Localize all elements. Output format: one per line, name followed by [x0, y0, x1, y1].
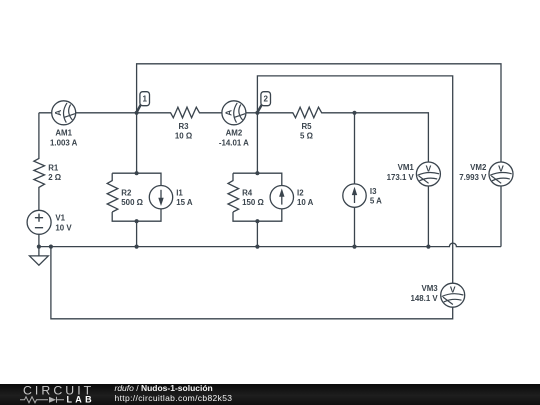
svg-text:R4: R4 — [242, 188, 253, 197]
svg-text:5 A: 5 A — [370, 197, 382, 206]
svg-text:VM3: VM3 — [421, 284, 438, 293]
svg-text:5 Ω: 5 Ω — [300, 131, 313, 140]
svg-text:A: A — [223, 110, 233, 116]
svg-text:R5: R5 — [301, 122, 312, 131]
wire main horizontal rail with AM1 R3 AM2 R5 — [39, 107, 429, 246]
voltage source V1 — [27, 210, 51, 234]
node 2 badge — [257, 92, 270, 113]
voltmeter VM3 — [441, 283, 465, 307]
junction R4 box bottom — [255, 219, 259, 223]
ammeter AM1 — [52, 101, 76, 125]
svg-text:10 V: 10 V — [55, 223, 72, 232]
ground symbol — [30, 247, 49, 266]
wire parallel box R4 I2 — [228, 173, 282, 246]
node 1 badge — [137, 92, 150, 113]
junction VM1 on bottom rail — [426, 245, 430, 249]
svg-text:150 Ω: 150 Ω — [242, 198, 264, 207]
junction R2 box bottom — [135, 219, 139, 223]
junction node 1 on main rail — [135, 111, 139, 115]
wire bottom ground rail with hop over VM3 wire — [39, 243, 501, 247]
svg-text:173.1 V: 173.1 V — [387, 173, 415, 182]
svg-text:V: V — [450, 285, 456, 295]
svg-text:148.1 V: 148.1 V — [410, 294, 438, 303]
wire node 2 column down to parallel box — [256, 113, 258, 173]
footer bar with CircuitLab logo and credits — [0, 384, 540, 405]
wire parallel box R2 I1 — [107, 173, 161, 246]
current source I1 arrow down — [149, 186, 172, 209]
wire second top net from node 2 to VM3 column — [257, 76, 452, 283]
wire top net from node 1 to VM2 column — [137, 64, 501, 247]
svg-text:LAB: LAB — [67, 395, 95, 405]
svg-text:R2: R2 — [121, 188, 132, 197]
svg-text:R1: R1 — [48, 164, 59, 173]
svg-text:R3: R3 — [178, 122, 189, 131]
junction R4 box top — [255, 171, 259, 175]
svg-text:500 Ω: 500 Ω — [121, 198, 143, 207]
svg-text:1.003 A: 1.003 A — [50, 139, 78, 148]
svg-text:I1: I1 — [176, 188, 183, 197]
voltmeter VM1 — [416, 162, 440, 186]
svg-text:A: A — [53, 110, 63, 116]
svg-text:I3: I3 — [370, 187, 377, 196]
svg-text:1: 1 — [142, 95, 147, 104]
junction R2 branch on bottom rail — [135, 245, 139, 249]
svg-text:10 A: 10 A — [297, 198, 314, 207]
junction node 2 on main rail — [255, 111, 259, 115]
svg-text:2 Ω: 2 Ω — [48, 173, 61, 182]
wire left branch with resistor R1 and source V1 — [34, 113, 45, 247]
wire node 1 column down to parallel box — [136, 113, 138, 173]
svg-text:AM2: AM2 — [226, 129, 243, 138]
svg-text:AM1: AM1 — [55, 129, 72, 138]
junction I3 top on main rail — [352, 111, 356, 115]
svg-text:V: V — [498, 163, 504, 173]
junction VM3 loop on bottom rail — [49, 245, 53, 249]
svg-text:V: V — [426, 163, 432, 173]
svg-text:7.993 V: 7.993 V — [459, 173, 487, 182]
junction R4 branch on bottom rail — [255, 245, 259, 249]
svg-text:V1: V1 — [55, 214, 65, 223]
svg-text:VM1: VM1 — [398, 163, 415, 172]
svg-text:-14.01 A: -14.01 A — [219, 139, 249, 148]
svg-text:VM2: VM2 — [470, 163, 487, 172]
junction R2 box top — [135, 171, 139, 175]
svg-text:15 A: 15 A — [176, 198, 193, 207]
svg-text:I2: I2 — [297, 188, 304, 197]
wire VM3 bottom loop — [51, 247, 453, 319]
svg-text:2: 2 — [263, 95, 268, 104]
current source I3 arrow up — [343, 184, 366, 207]
wire current source I3 column — [354, 113, 356, 247]
voltmeter VM2 — [489, 162, 513, 186]
junction V1 ground on bottom rail — [37, 245, 41, 249]
svg-text:10 Ω: 10 Ω — [175, 131, 192, 140]
junction I3 on bottom rail — [352, 245, 356, 249]
current source I2 arrow up — [270, 186, 293, 209]
ammeter AM2 — [222, 101, 246, 125]
